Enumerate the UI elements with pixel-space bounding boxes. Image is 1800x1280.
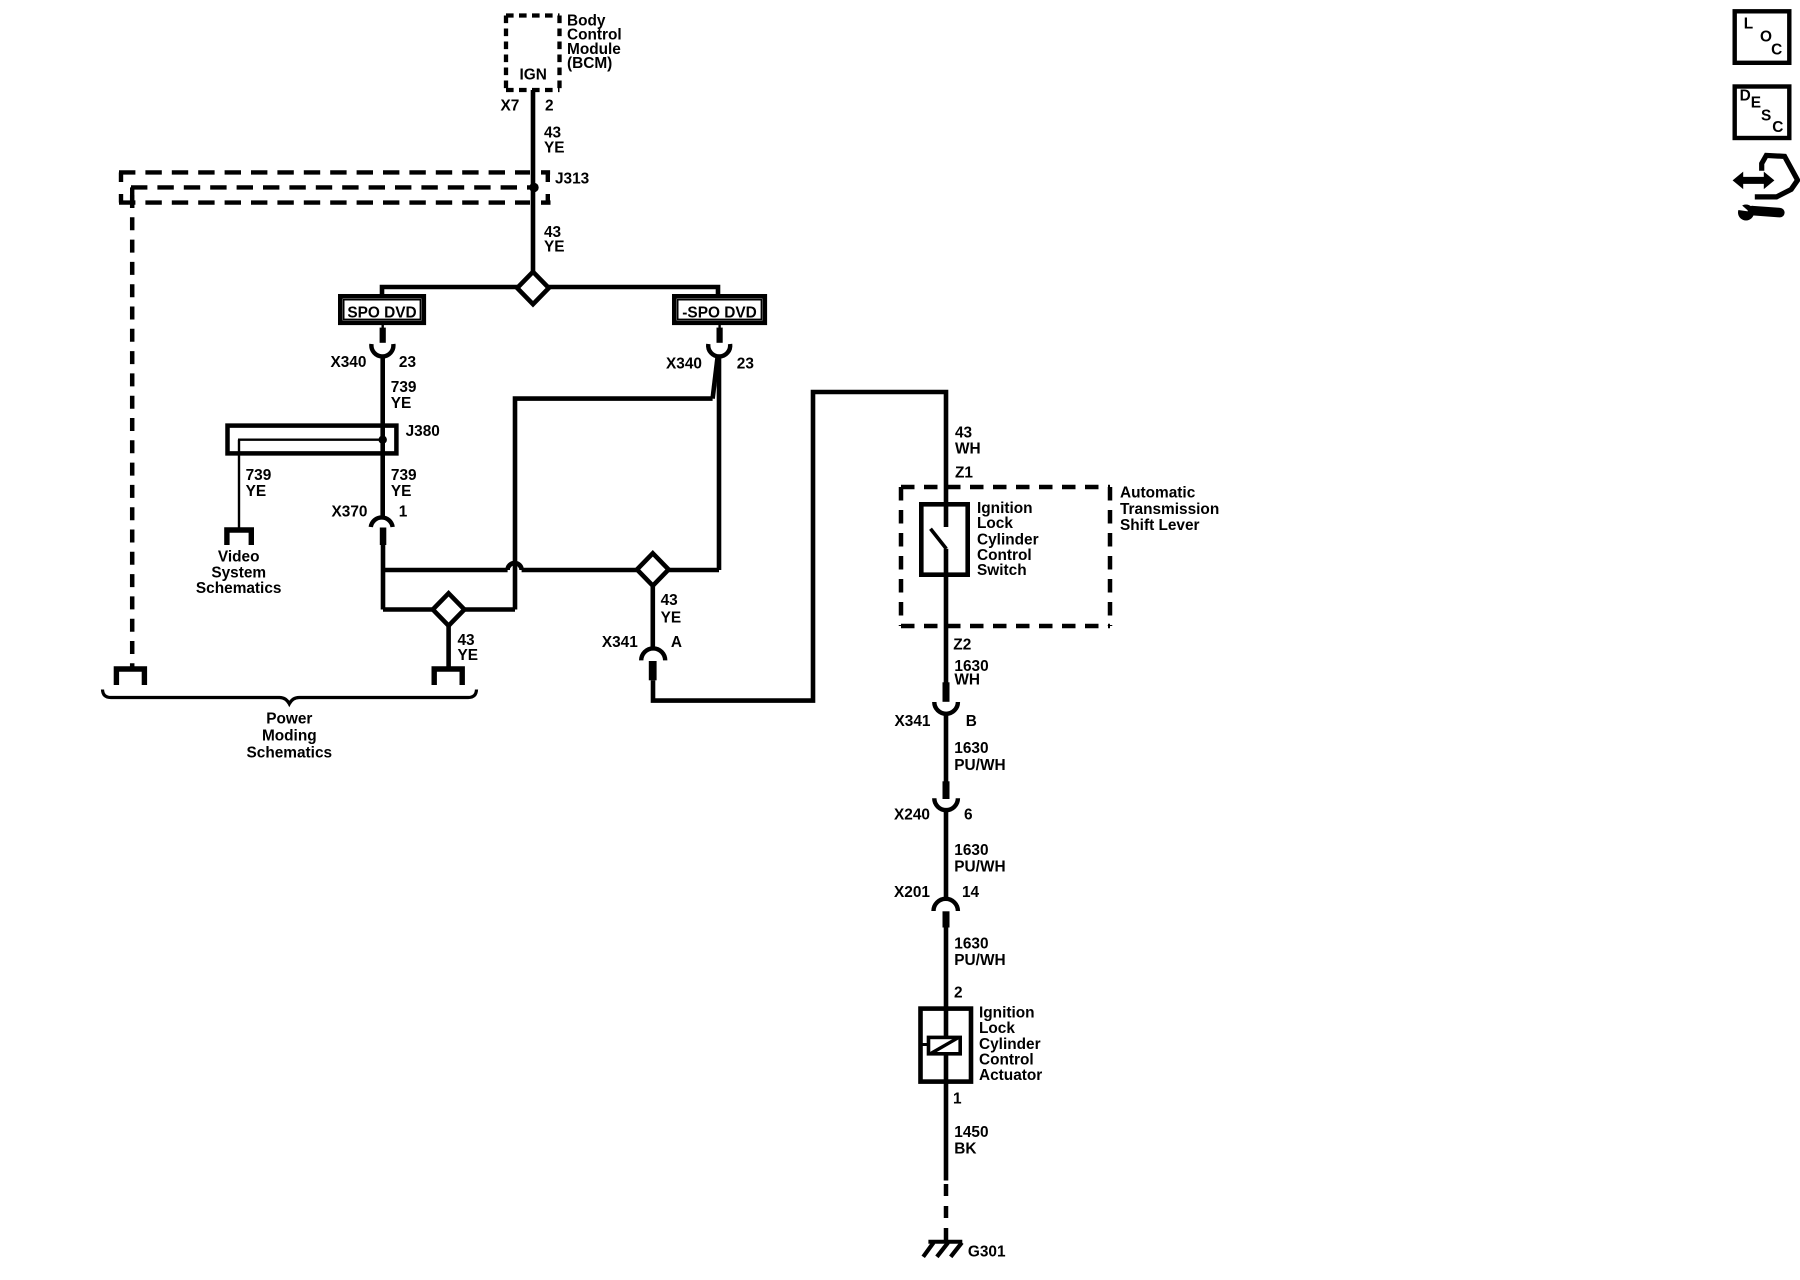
svg-text:(BCM): (BCM) bbox=[567, 55, 612, 72]
wire 1630 PU/WH (3) bbox=[944, 928, 949, 1007]
wire label 43 YE (lower) bbox=[544, 224, 565, 256]
svg-text:C: C bbox=[1772, 119, 1783, 136]
svg-text:1630: 1630 bbox=[954, 842, 988, 859]
svg-text:X341: X341 bbox=[895, 713, 931, 730]
connector X240 pin 6 female cup bbox=[934, 798, 958, 810]
wire 739 YE from X340 to J380 bbox=[380, 356, 385, 517]
label X340 / 23 (right) bbox=[666, 355, 754, 372]
svg-text:X201: X201 bbox=[894, 884, 930, 901]
connector X341 pin B female cup bbox=[934, 702, 958, 714]
Automatic Transmission Shift Lever dashed box bbox=[901, 487, 1110, 626]
BCM dashed box U1 bbox=[506, 16, 560, 91]
svg-text:System: System bbox=[211, 564, 266, 581]
svg-text:43: 43 bbox=[661, 592, 678, 609]
wire branch diagonal to X341 A run bbox=[713, 356, 718, 399]
svg-text:WH: WH bbox=[955, 440, 981, 457]
off-page symbol (right, power moding) bbox=[434, 669, 462, 685]
connector X340 pin 23 (SPO DVD) male pin bbox=[382, 325, 384, 329]
DESC icon box bbox=[1735, 87, 1790, 139]
label X240 / 6 bbox=[894, 807, 973, 824]
label Ignition Lock Cylinder Control Switch bbox=[977, 500, 1039, 579]
wire label 1450 BK bbox=[954, 1124, 988, 1158]
connector X370 pin 1 male pin bbox=[380, 528, 387, 546]
svg-text:YE: YE bbox=[391, 483, 412, 500]
svg-text:739: 739 bbox=[391, 379, 417, 396]
ignition lock cylinder control actuator box bbox=[921, 1009, 972, 1082]
svg-text:X340: X340 bbox=[666, 355, 702, 372]
svg-text:739: 739 bbox=[391, 467, 417, 484]
splice J313 dashed body bbox=[119, 172, 551, 202]
BCM module label bbox=[567, 12, 622, 72]
svg-text:J313: J313 bbox=[555, 171, 589, 188]
svg-text:Schematics: Schematics bbox=[247, 745, 333, 762]
svg-text:Z1: Z1 bbox=[955, 464, 973, 481]
wire label 1630 WH bbox=[954, 658, 988, 689]
wire 43 YE down from splice to off-page bbox=[446, 626, 451, 667]
svg-text:Lock: Lock bbox=[979, 1020, 1015, 1037]
svg-text:Automatic: Automatic bbox=[1120, 484, 1196, 501]
svg-text:Actuator: Actuator bbox=[979, 1067, 1042, 1084]
wire horizontal to left then down (to hop) bbox=[515, 399, 713, 610]
wire label 1630 PU/WH (1) bbox=[954, 740, 1005, 774]
svg-text:BK: BK bbox=[954, 1140, 976, 1157]
label Automatic Transmission Shift Lever bbox=[1120, 484, 1219, 534]
svg-text:PU/WH: PU/WH bbox=[954, 859, 1005, 876]
wire from X370 down bbox=[381, 545, 386, 610]
svg-text:YE: YE bbox=[458, 647, 479, 664]
connector X240 pin 6 male pin bbox=[943, 781, 950, 799]
wire 1450 BK bbox=[944, 1084, 949, 1181]
connector X370 pin 1 female cup bbox=[371, 517, 393, 527]
svg-text:1630: 1630 bbox=[954, 740, 988, 757]
wire from X341 A to shift lever column bbox=[653, 392, 946, 701]
J380 internal bus line bbox=[238, 439, 385, 441]
wire label 1630 PU/WH (2) bbox=[954, 842, 1005, 875]
connector X340 pin 23 (-SPO DVD) male pin bbox=[718, 325, 720, 329]
label X340 / 23 (left) bbox=[330, 354, 416, 371]
connector X201 pin 14 female cup bbox=[934, 899, 958, 911]
brace Power Moding Schematics bbox=[103, 690, 477, 704]
svg-text:L: L bbox=[1744, 15, 1753, 32]
icon wrench bbox=[1735, 201, 1780, 221]
svg-text:43: 43 bbox=[955, 424, 972, 441]
wire 1630 PU/WH (1) bbox=[944, 714, 949, 782]
wire 43 YE from BCM X7-2 bbox=[531, 90, 536, 273]
wire horizontal lower to splice bbox=[383, 607, 515, 612]
svg-text:Transmission: Transmission bbox=[1120, 501, 1219, 518]
svg-text:C: C bbox=[1771, 42, 1782, 59]
splice pack J380 box bbox=[228, 426, 397, 454]
splice diamond on 43 YE bbox=[517, 272, 549, 304]
svg-text:YE: YE bbox=[544, 140, 565, 157]
svg-text:YE: YE bbox=[391, 395, 412, 412]
branch wire 739 YE to Video System Schematics bbox=[238, 440, 240, 529]
svg-text:-SPO DVD: -SPO DVD bbox=[682, 305, 756, 322]
wire label 43 YE (upper) bbox=[544, 125, 565, 157]
label Power Moding Schematics bbox=[247, 710, 333, 761]
svg-text:1: 1 bbox=[953, 1090, 962, 1107]
wire horizontal 43 YE with hop over vertical bbox=[383, 568, 508, 573]
svg-text:Power: Power bbox=[266, 710, 312, 727]
svg-text:X7: X7 bbox=[500, 98, 519, 115]
svg-text:E: E bbox=[1751, 95, 1761, 112]
svg-text:IGN: IGN bbox=[520, 67, 547, 84]
off-page symbol (left, power moding) bbox=[116, 669, 144, 685]
connector X341 pin A female cup bbox=[641, 648, 665, 660]
splice diamond (right, on 43 YE run) bbox=[637, 553, 669, 585]
wire label 43 YE (X341 A) bbox=[661, 592, 682, 627]
svg-text:2: 2 bbox=[545, 98, 554, 115]
wire label 43 YE bbox=[458, 632, 479, 664]
svg-text:X370: X370 bbox=[332, 504, 368, 521]
svg-text:Cylinder: Cylinder bbox=[977, 531, 1039, 548]
svg-text:YE: YE bbox=[661, 609, 682, 626]
svg-text:23: 23 bbox=[399, 354, 416, 371]
wire 43 YE from splice down to X341 A bbox=[650, 586, 655, 649]
wire label 739 YE (branch) bbox=[246, 467, 272, 500]
svg-text:S: S bbox=[1761, 108, 1771, 125]
dashed wire from J313 to Power Moding Schematics bbox=[130, 195, 135, 667]
connector X340 pin 23 (SPO DVD) female cup bbox=[371, 344, 393, 356]
connector X341 pin A male pin bbox=[649, 661, 657, 680]
svg-text:X341: X341 bbox=[602, 634, 638, 651]
connector label X7 pin 2 bbox=[500, 98, 553, 115]
svg-text:Lock: Lock bbox=[977, 515, 1013, 532]
svg-text:PU/WH: PU/WH bbox=[954, 952, 1005, 969]
label X370 / 1 bbox=[332, 504, 408, 521]
wire hop (crossover, no connection) bbox=[508, 563, 522, 570]
svg-text:23: 23 bbox=[737, 355, 754, 372]
off-page symbol (Video System Schematics) bbox=[227, 530, 251, 545]
wire label 739 YE (main) bbox=[391, 467, 417, 500]
wire 1630 WH from switch Z2 bbox=[944, 549, 949, 684]
J380 junction dot bbox=[379, 436, 387, 444]
svg-text:1630: 1630 bbox=[954, 936, 988, 953]
svg-text:G301: G301 bbox=[968, 1243, 1006, 1260]
splice diamond (left lower) bbox=[433, 593, 465, 625]
svg-text:D: D bbox=[1740, 88, 1751, 105]
svg-text:YE: YE bbox=[246, 483, 267, 500]
svg-text:Video: Video bbox=[218, 549, 260, 566]
wire label 43 WH bbox=[955, 424, 981, 457]
svg-text:Z2: Z2 bbox=[953, 636, 971, 653]
wire label 739 YE bbox=[391, 379, 417, 412]
svg-text:PU/WH: PU/WH bbox=[954, 757, 1005, 774]
svg-text:6: 6 bbox=[964, 807, 973, 824]
label X341 / A bbox=[602, 634, 682, 651]
svg-text:Cylinder: Cylinder bbox=[979, 1036, 1041, 1053]
icon jump arrow outline bbox=[1755, 155, 1798, 197]
wire through actuator bbox=[944, 1006, 949, 1084]
svg-text:Moding: Moding bbox=[262, 728, 317, 745]
ignition lock cylinder control switch box bbox=[921, 504, 967, 574]
label X201 / 14 bbox=[894, 884, 980, 901]
svg-text:739: 739 bbox=[246, 467, 272, 484]
svg-text:Shift Lever: Shift Lever bbox=[1120, 517, 1200, 534]
bus wire SPO DVD row bbox=[382, 287, 718, 294]
svg-text:Schematics: Schematics bbox=[196, 580, 282, 597]
dashed wire to ground bbox=[944, 1184, 949, 1240]
wire label 1630 PU/WH (3) bbox=[954, 936, 1005, 969]
wire 1630 PU/WH (2) bbox=[944, 810, 949, 899]
label Ignition Lock Cylinder Control Actuator bbox=[979, 1005, 1042, 1084]
label Video System Schematics bbox=[196, 549, 282, 597]
svg-text:Switch: Switch bbox=[977, 562, 1027, 579]
svg-text:1450: 1450 bbox=[954, 1124, 988, 1141]
icon double arrow bbox=[1733, 172, 1775, 190]
splice J313 junction dot bbox=[529, 183, 538, 192]
svg-text:14: 14 bbox=[962, 884, 980, 901]
actuator solenoid symbol bbox=[921, 1037, 960, 1053]
label X341 / B bbox=[895, 713, 977, 730]
svg-text:X340: X340 bbox=[330, 354, 366, 371]
ground G301 symbol bbox=[923, 1242, 962, 1257]
svg-text:X240: X240 bbox=[894, 807, 930, 824]
LOC icon box bbox=[1735, 11, 1790, 63]
svg-text:SPO DVD: SPO DVD bbox=[347, 305, 416, 322]
connector X340 pin 23 (-SPO DVD) female cup bbox=[708, 344, 730, 356]
svg-text:2: 2 bbox=[954, 984, 963, 1001]
wire 43 YE down from -SPO DVD bbox=[717, 356, 722, 571]
svg-text:Ignition: Ignition bbox=[979, 1005, 1035, 1022]
svg-text:A: A bbox=[671, 634, 682, 651]
svg-text:WH: WH bbox=[954, 672, 980, 689]
connector X201 pin 14 male pin bbox=[943, 911, 950, 927]
svg-text:1: 1 bbox=[399, 504, 408, 521]
-SPO DVD box bbox=[674, 296, 765, 323]
svg-text:J380: J380 bbox=[406, 423, 440, 440]
svg-text:YE: YE bbox=[544, 239, 565, 256]
switch blade bbox=[931, 529, 947, 549]
svg-text:B: B bbox=[966, 713, 977, 730]
SPO DVD box bbox=[340, 296, 424, 323]
connector X341 pin B male pin bbox=[943, 682, 950, 702]
